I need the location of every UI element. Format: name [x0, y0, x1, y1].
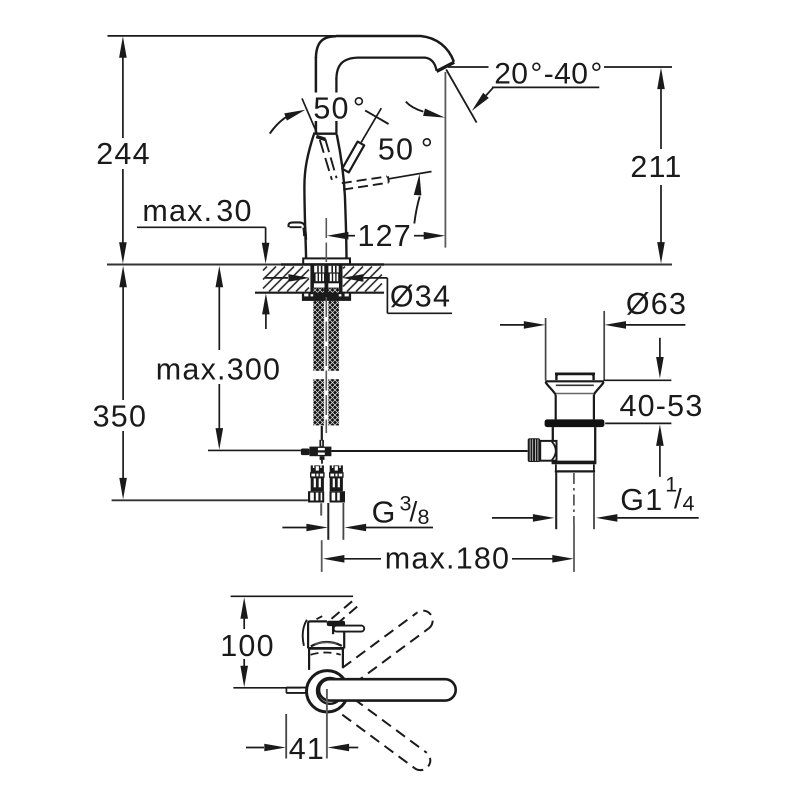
linkage left adjuster — [301, 449, 310, 456]
dimension dia34 leader — [386, 278, 388, 313]
20-40 deg label underline — [492, 86, 599, 88]
svg-text:211: 211 — [630, 150, 682, 184]
svg-text:41: 41 — [289, 732, 325, 766]
connector nut right — [330, 491, 346, 502]
plan spout lower position (dashed) — [342, 715, 414, 769]
dimension dia63 — [500, 324, 524, 326]
spout tip horizontal reference line — [448, 66, 489, 68]
shank slots — [314, 266, 324, 273]
hose connector right — [330, 465, 343, 473]
dimension G3/8 arrows — [282, 527, 306, 529]
svg-text:G1: G1 — [620, 483, 663, 517]
dimension 350 — [119, 266, 127, 288]
drain body — [552, 427, 554, 461]
plan spout (solid) — [319, 679, 456, 700]
dimension max.30 upper arrow — [262, 243, 270, 264]
dimension 40-53 bottom reference — [605, 422, 671, 424]
svg-text:max.180: max.180 — [385, 542, 510, 576]
svg-text:20°-40°: 20°-40° — [494, 57, 603, 90]
svg-text:350: 350 — [93, 400, 148, 434]
countertop top line — [107, 264, 672, 266]
drain funnel inner lines — [556, 384, 594, 386]
dimension G1-1/4 arrows — [492, 517, 533, 519]
drain knob stem — [540, 441, 556, 461]
lever alternate axis line — [302, 98, 317, 133]
plan neck dashed arc — [311, 653, 341, 655]
plan swivel circle outer — [307, 671, 348, 712]
plan centerline — [326, 689, 328, 759]
plan body outline — [308, 621, 327, 648]
plan lever raised small dash — [317, 616, 323, 619]
drain lift cap — [556, 374, 593, 380]
plan pull rod tab — [286, 687, 306, 689]
faucet centerline — [325, 218, 327, 262]
lever handle (solid) — [342, 142, 364, 173]
lower 50 deg curved arrow — [414, 197, 419, 224]
mounting nut — [302, 293, 351, 301]
svg-text:°: ° — [421, 133, 434, 167]
20-40 deg leader arrow — [486, 88, 493, 96]
drain knob ridges — [529, 439, 532, 461]
lower 50 deg extension line — [389, 172, 432, 179]
countertop hatching left — [263, 267, 267, 271]
lever axis extension line — [361, 108, 381, 142]
braided hose lower left — [313, 379, 324, 425]
countertop bottom line — [255, 292, 384, 294]
braided hose upper right — [328, 289, 339, 371]
faucet spout outer profile — [336, 36, 454, 62]
svg-text:40-53: 40-53 — [619, 389, 703, 423]
dimension 41 — [246, 747, 264, 749]
plan 100 top extension line — [231, 595, 353, 597]
linkage block — [309, 447, 331, 457]
plan lever raised (dashed) — [332, 601, 353, 619]
dimension dia34 arrows — [265, 277, 288, 279]
svg-text:Ø34: Ø34 — [390, 280, 451, 314]
upper 50 deg arc left — [270, 117, 287, 134]
countertop hatching right — [343, 267, 345, 269]
spout riser right edge — [335, 78, 337, 134]
drain collar — [555, 464, 557, 472]
left connector centerline stub — [320, 503, 322, 515]
svg-text:°: ° — [353, 92, 366, 126]
faucet body right edge — [337, 135, 347, 259]
threaded shank — [310, 265, 342, 294]
drain tailpipe — [555, 472, 557, 529]
hose connector left — [311, 465, 324, 473]
horizontal pop-up rod — [208, 449, 301, 451]
faucet body joint line — [313, 133, 337, 135]
dimension max.30 leader — [137, 226, 266, 228]
dimension 40-53 top arrow — [659, 338, 661, 358]
svg-text:Ø63: Ø63 — [626, 287, 687, 321]
dimension 244 — [119, 36, 127, 58]
plan lever rod — [334, 626, 365, 632]
drain centerline — [573, 473, 575, 524]
dimension 40-53 top reference — [604, 379, 672, 381]
braided hose lower right — [328, 379, 339, 425]
svg-text:50: 50 — [313, 92, 349, 126]
dimension max.30 lower arrow — [262, 293, 270, 314]
spout riser left edge — [315, 57, 318, 134]
svg-text:G: G — [372, 496, 397, 530]
lever hidden end wedge — [316, 136, 325, 139]
dimension max.180 — [323, 555, 345, 563]
faucet body left edge — [304, 135, 313, 259]
drain flange top — [545, 380, 604, 382]
lever horizontal position (dashed) — [342, 176, 387, 183]
plan swivel circle inner — [317, 678, 343, 704]
svg-text:50: 50 — [378, 133, 414, 167]
dimension 127 — [327, 232, 349, 240]
plan 100 bottom extension line — [233, 687, 300, 689]
svg-text:max.300: max.300 — [156, 353, 281, 387]
lever hidden position (dashed) — [320, 140, 332, 180]
lever tip cross mark — [365, 110, 389, 124]
countertop top line thick part — [281, 263, 384, 266]
connector nut left — [308, 491, 324, 502]
linkage lower stub — [320, 456, 325, 460]
dimension 100 — [240, 597, 248, 619]
drain dia63 extension lines — [545, 318, 547, 380]
spout outlet face — [437, 62, 455, 71]
plan spout upper position (dashed) — [354, 628, 429, 683]
svg-text:100: 100 — [220, 629, 275, 663]
plan neck sides — [308, 648, 310, 670]
plan body bottom line — [308, 647, 344, 650]
plan body dome arc — [311, 642, 342, 646]
plan lever hinge — [327, 621, 345, 626]
pop-up pull rod — [288, 222, 306, 239]
dimension 40-53 bottom arrow — [656, 424, 664, 446]
upper 50 deg label background — [310, 93, 369, 122]
dimension 211 — [657, 68, 665, 90]
drain knurled knob — [528, 438, 541, 462]
dimension 244 top reference line — [108, 35, 341, 37]
braided hose upper left — [313, 289, 324, 371]
drain upper cylinder — [555, 395, 557, 420]
spout outlet angle line — [446, 70, 476, 123]
svg-text:8: 8 — [418, 505, 431, 529]
svg-text:max.30: max.30 — [142, 194, 252, 228]
spout tip projection line — [444, 72, 446, 248]
dimension max.300 — [216, 266, 224, 288]
svg-text:4: 4 — [683, 492, 696, 516]
plan body left outer arc — [303, 620, 307, 646]
drain rubber seal — [545, 419, 605, 427]
dimension 41 left extension — [285, 714, 287, 759]
drain funnel sides — [545, 382, 555, 395]
dimension 350 reference line — [112, 499, 308, 501]
pull rod lower — [321, 426, 323, 440]
upper 50 deg arc right — [406, 102, 424, 112]
right tailpipe — [327, 503, 329, 540]
svg-text:127: 127 — [357, 219, 412, 253]
base plate — [303, 258, 350, 264]
linkage upper stub — [319, 440, 324, 447]
dimension max.180 extension lines — [321, 540, 323, 572]
svg-text:244: 244 — [96, 137, 151, 171]
